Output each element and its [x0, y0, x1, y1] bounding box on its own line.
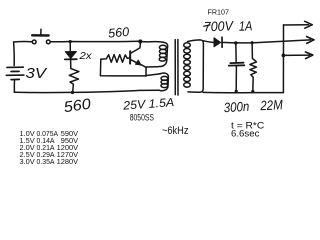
transformer T1 secondary winding L3 [184, 40, 204, 92]
resistor R1 560 base resistor [101, 55, 130, 63]
wire emitter to center node [140, 64, 146, 67]
output arrow top [284, 21, 313, 28]
svg-text:22M: 22M [259, 97, 284, 113]
capacitor C1 300n [229, 43, 245, 91]
transformer T1 primary winding L1 [150, 42, 167, 67]
table of measurements [20, 129, 79, 166]
svg-text:560: 560 [108, 25, 130, 41]
svg-text:700V: 700V [204, 18, 235, 34]
wire top rail diode to arrow [222, 40, 310, 43]
wire center node vertical [145, 67, 147, 76]
wire bottom rail left [14, 90, 159, 92]
wire top rail to primary winding [140, 41, 150, 43]
wire top rail from switch to transformer [50, 40, 139, 42]
svg-text:300n: 300n [223, 99, 249, 115]
LED D1 branch wire from top rail [69, 42, 71, 52]
node dot: capacitor top [234, 41, 237, 44]
wire right vertical to outputs [282, 25, 284, 93]
node dot: LED branch junction [69, 40, 72, 43]
wire battery bottom to rail [13, 80, 15, 93]
svg-text:1A: 1A [239, 18, 253, 33]
diode D2 FR107 [214, 37, 222, 47]
svg-text:25V 1.5A: 25V 1.5A [122, 95, 175, 113]
wire secondary top rail to diode [203, 41, 213, 43]
svg-text:0.35A: 0.35A [37, 157, 55, 166]
output arrow bottom [283, 52, 313, 59]
label 700V seven crossbar [204, 25, 210, 26]
svg-text:3.0V: 3.0V [20, 157, 35, 166]
node dot: resistor top [250, 41, 253, 44]
node dot: collector to top rail [138, 39, 142, 43]
resistor R3 22M [250, 43, 257, 92]
transistor Q1 8050SS [130, 43, 141, 65]
wire center node to primary winding bottom [146, 66, 158, 68]
svg-text:6.6sec: 6.6sec [231, 128, 260, 138]
svg-text:FR107: FR107 [208, 8, 230, 17]
wire feedback loop left and bottom [100, 59, 146, 76]
node dot: bottom arrow junction [282, 54, 286, 58]
transformer T1 core [175, 40, 178, 96]
resistor R2 560 vertical [69, 59, 79, 92]
node dot: resistor bottom [251, 90, 254, 93]
node dot: LED branch to bottom rail [71, 91, 74, 94]
wire left vertical battery top [13, 42, 16, 66]
wire top rail left from corner to switch [14, 41, 32, 43]
node dot: capacitor bottom [235, 90, 238, 93]
output arrow middle (top rail) [307, 37, 314, 44]
svg-text:1280V: 1280V [57, 157, 78, 166]
transformer T1 feedback winding L2 [160, 73, 169, 91]
switch S1 push-button [32, 29, 50, 44]
svg-text:~6kHz: ~6kHz [162, 125, 189, 137]
LED D1 diode down [65, 52, 77, 60]
battery BT1 3V [6, 67, 24, 79]
wire bottom rail right [203, 91, 283, 93]
svg-text:560: 560 [63, 96, 93, 117]
svg-text:3V: 3V [26, 65, 49, 82]
wire center node to feedback winding top [146, 74, 160, 76]
svg-text:8050SS: 8050SS [130, 112, 154, 122]
svg-text:2x: 2x [78, 51, 92, 62]
